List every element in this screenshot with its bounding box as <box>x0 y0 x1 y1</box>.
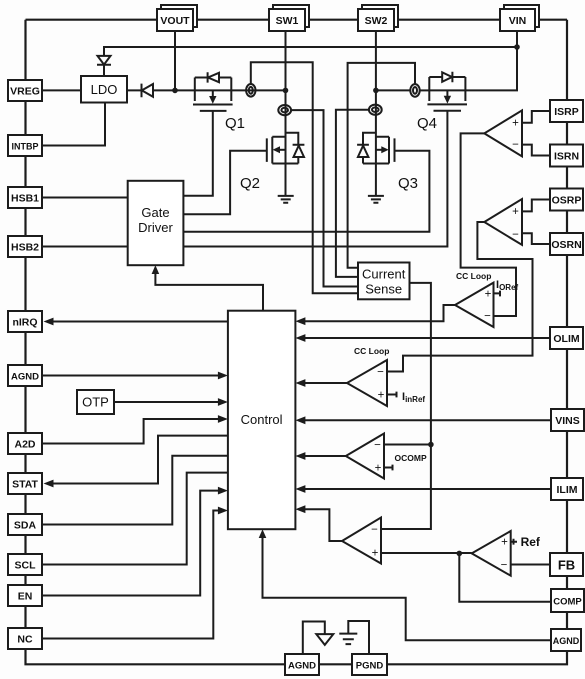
ground signal (open triangle) <box>316 634 333 645</box>
Q3 body arrow <box>376 149 383 151</box>
Q3 body diode <box>357 133 376 164</box>
svg-text:OSRN: OSRN <box>551 239 581 251</box>
ground below Q2 <box>278 196 294 203</box>
svg-text:Q4: Q4 <box>417 115 437 132</box>
ground power (bars) <box>339 634 357 645</box>
pin VIN <box>500 5 539 31</box>
wire SCL to Control <box>42 473 228 565</box>
current sense coil T3 (Q3 drain) <box>369 105 382 115</box>
op-amp U5 (OCOMP) <box>346 434 384 479</box>
wire U3 + input stub with reference tick <box>494 291 501 297</box>
svg-text:SW2: SW2 <box>365 15 388 27</box>
node SW2 junction <box>373 88 379 94</box>
wire VOUT drop <box>174 31 176 90</box>
svg-text:SDA: SDA <box>14 520 37 532</box>
pin COMP <box>551 589 584 612</box>
Q3 leads <box>363 137 395 164</box>
transistor Q3 <box>357 133 394 164</box>
ground below Q3 <box>368 196 384 203</box>
wire Current Sense output <box>381 283 431 529</box>
svg-text:AGND: AGND <box>11 372 39 383</box>
Q2 leads <box>267 137 299 164</box>
svg-text:LDO: LDO <box>91 82 118 97</box>
current sense coil T1 (Q1 source) <box>246 84 255 97</box>
wire Q4 gate to Gate Driver <box>183 111 447 247</box>
wire NC to Control <box>42 507 228 639</box>
wire U7 + input stub with reference tick <box>511 539 517 545</box>
wire U2 output to U4 <box>387 222 533 372</box>
transistor Q1 <box>193 72 233 111</box>
svg-text:Ref: Ref <box>521 535 541 549</box>
current sense coil T4 (Q4 source) <box>410 84 419 97</box>
node VOUT junction <box>172 88 178 94</box>
block Control <box>228 311 296 530</box>
svg-text:A2D: A2D <box>14 439 35 451</box>
op-amp U1 (ISRP/ISRN sense) <box>484 110 522 156</box>
svg-text:PGND: PGND <box>356 661 384 672</box>
wire VIN rail horizontal <box>104 47 517 56</box>
wire AGND to Control <box>42 372 228 380</box>
wire U1 output to U3 <box>461 133 516 316</box>
svg-text:VREG: VREG <box>10 86 40 98</box>
wire SW2 drop <box>375 31 377 90</box>
Q2 body diode <box>285 133 304 164</box>
wire OTP to Control <box>114 398 228 406</box>
pin VOUT <box>157 5 197 31</box>
svg-text:+: + <box>512 118 519 130</box>
wire SW2 node down to Q3 drain and ground <box>375 90 377 195</box>
wire HSB1 to Gate Driver <box>42 197 128 199</box>
wire OSRN to U2 <box>522 233 550 244</box>
pin SCL <box>8 554 42 575</box>
svg-text:CC Loop: CC Loop <box>456 271 491 281</box>
Q4 body diode <box>429 72 465 82</box>
Q4 stubs and channel <box>427 77 467 111</box>
svg-text:−: − <box>512 229 519 241</box>
svg-text:Driver: Driver <box>138 220 173 235</box>
wire ILIM to Control <box>295 485 551 493</box>
wire U3 output to Control <box>295 305 455 325</box>
wire PGND bottom pin to power ground <box>348 621 369 655</box>
pin FB <box>550 553 583 576</box>
pin ISRP <box>550 100 583 122</box>
svg-text:−: − <box>371 524 378 536</box>
svg-text:EN: EN <box>18 591 33 603</box>
pin EN <box>8 585 42 606</box>
Q1 source arrow <box>212 90 214 96</box>
block LDO <box>81 76 127 103</box>
pin nIRQ <box>8 311 42 332</box>
node error amp output <box>457 551 463 557</box>
Q1 stubs and channel <box>193 78 233 111</box>
wire SW1 drop <box>285 31 287 90</box>
wire T2 sense to current sense <box>291 110 358 286</box>
pin SW1 <box>269 5 309 31</box>
wire A2D to Control <box>42 415 228 443</box>
svg-text:Sense: Sense <box>365 282 402 297</box>
wire INTBP to LDO bottom <box>42 103 105 146</box>
pin SDA <box>8 514 42 535</box>
wire HSB2 to Gate Driver <box>42 246 128 248</box>
wire VIN drop to Q4 drain <box>465 31 517 90</box>
svg-text:Q2: Q2 <box>240 175 260 192</box>
svg-text:−: − <box>377 367 384 379</box>
wire T4 sense to current sense <box>348 63 415 268</box>
pin VREG <box>8 80 42 101</box>
svg-text:HSB1: HSB1 <box>11 193 39 205</box>
wire STAT to Control <box>44 436 228 488</box>
pin NC <box>8 628 42 649</box>
svg-text:ILIM: ILIM <box>557 484 578 496</box>
svg-text:SW1: SW1 <box>276 15 299 27</box>
wire Control to AGND pin (right) <box>259 529 550 640</box>
svg-text:NC: NC <box>17 634 33 646</box>
wire FB to U7 <box>511 564 550 566</box>
svg-text:SCL: SCL <box>15 560 37 572</box>
pin OLIM <box>550 327 583 349</box>
node OCOMP tap <box>428 442 434 448</box>
svg-text:+: + <box>375 463 382 475</box>
pin HSB2 <box>8 236 42 257</box>
svg-text:INTBP: INTBP <box>12 142 39 152</box>
wire OLIM to Control <box>295 334 550 342</box>
wire T1 sense to current sense <box>251 62 358 293</box>
wire SW1 node down to Q2 drain and ground <box>285 90 287 195</box>
svg-text:AGND: AGND <box>553 636 580 646</box>
wire Q1 gate to Gate Driver <box>183 111 212 196</box>
transistor Q2 <box>267 133 305 164</box>
pin SW2 <box>358 5 398 31</box>
wire U6 + input to error amp <box>381 552 472 554</box>
block Current Sense <box>358 263 410 300</box>
svg-text:AGND: AGND <box>288 661 316 672</box>
svg-text:nIRQ: nIRQ <box>12 317 37 329</box>
op-amp U6 (PWM comparator) <box>342 518 381 564</box>
wire T3 sense to current sense <box>336 110 369 277</box>
pin AGND (bottom) <box>285 654 319 675</box>
svg-text:Q1: Q1 <box>225 115 245 132</box>
node SW1 junction <box>283 88 289 94</box>
current sense coil T2 (Q2 drain) <box>278 105 291 115</box>
svg-text:VINS: VINS <box>555 415 580 427</box>
svg-text:OTP: OTP <box>82 395 109 410</box>
wire SDA to Control <box>42 456 228 525</box>
pin OSRP <box>550 189 583 211</box>
Q1 body diode <box>195 72 232 82</box>
wire ISRP to U1 <box>522 111 550 123</box>
svg-text:STAT: STAT <box>12 479 38 491</box>
diode D1 (VIN rail into LDO) <box>97 56 111 76</box>
pin STAT <box>8 473 42 494</box>
wire ISRN to U1 <box>522 145 550 156</box>
wire U4 + input stub with reference tick <box>387 392 397 398</box>
svg-text:−: − <box>374 440 381 452</box>
wire AGND bottom pin to signal ground <box>303 622 325 655</box>
svg-text:Q3: Q3 <box>398 175 418 192</box>
wire Q1 source to SW1 node <box>231 89 285 91</box>
pin AGND (right) <box>551 629 581 651</box>
pin PGND <box>352 654 387 675</box>
pin OSRN <box>550 233 583 255</box>
pin ISRN <box>550 145 583 167</box>
wire error amp to COMP <box>459 553 551 601</box>
block Gate Driver <box>128 181 184 265</box>
svg-text:Current: Current <box>362 267 406 282</box>
pin ILIM <box>551 478 583 500</box>
svg-text:ISRN: ISRN <box>554 151 579 163</box>
wire Control to nIRQ <box>44 318 228 326</box>
svg-text:VIN: VIN <box>509 15 527 27</box>
svg-text:COMP: COMP <box>553 597 582 608</box>
wire U5 - input to sense line <box>384 444 431 446</box>
wire Control to Gate Driver <box>155 268 263 311</box>
wire U5 + input stub with reference tick <box>384 465 393 471</box>
wire Q3 gate to Gate Driver <box>183 151 429 232</box>
wire U4 output to Control <box>295 379 347 387</box>
pin VINS <box>551 409 584 431</box>
diode D2 (LDO output) <box>127 84 195 98</box>
svg-text:Control: Control <box>241 412 283 427</box>
wire U5 output to Control <box>295 452 345 460</box>
transistor Q4 <box>427 72 467 111</box>
svg-text:CC Loop: CC Loop <box>354 346 389 356</box>
block OTP <box>77 390 114 414</box>
svg-text:−: − <box>512 139 519 151</box>
op-amp U4 (CC loop IinRef) <box>347 360 387 406</box>
Q2 body arrow <box>279 149 286 151</box>
wire OSRP to U2 <box>522 200 550 212</box>
Q4 source arrow <box>446 90 448 96</box>
svg-text:ISRP: ISRP <box>554 106 579 118</box>
op-amp U3 (CC loop IORef) <box>455 283 494 327</box>
svg-text:+: + <box>485 289 492 301</box>
svg-text:OLIM: OLIM <box>553 333 579 345</box>
pin A2D <box>8 433 42 454</box>
op-amp U2 (OSRP/OSRN sense) <box>484 199 522 245</box>
svg-text:HSB2: HSB2 <box>11 242 39 254</box>
pin INTBP <box>8 135 42 156</box>
svg-text:OSRP: OSRP <box>552 195 582 207</box>
svg-text:+: + <box>378 390 385 402</box>
svg-text:OCOMP: OCOMP <box>395 453 427 463</box>
wire T4 to Q4 <box>420 89 430 91</box>
pin HSB1 <box>8 187 42 208</box>
svg-text:FB: FB <box>558 558 575 573</box>
op-amp U7 (error amp Ref/FB) <box>472 531 511 576</box>
wire SW2 node to Q4 source <box>376 89 410 91</box>
svg-text:+: + <box>512 206 519 218</box>
svg-text:Gate: Gate <box>141 205 169 220</box>
svg-text:−: − <box>484 311 491 323</box>
svg-text:−: − <box>501 560 508 572</box>
svg-text:VOUT: VOUT <box>160 15 190 27</box>
svg-text:+: + <box>372 548 379 560</box>
wire EN to Control <box>42 487 228 596</box>
wire U6 output to Control <box>295 505 342 541</box>
wire VINS to Control <box>295 416 551 424</box>
svg-text:+: + <box>501 537 508 549</box>
wire VREG to LDO <box>42 89 81 91</box>
pin AGND (left) <box>8 365 42 386</box>
wire Q2 gate to Gate Driver <box>183 151 266 215</box>
node VIN-rail junction <box>514 44 520 50</box>
